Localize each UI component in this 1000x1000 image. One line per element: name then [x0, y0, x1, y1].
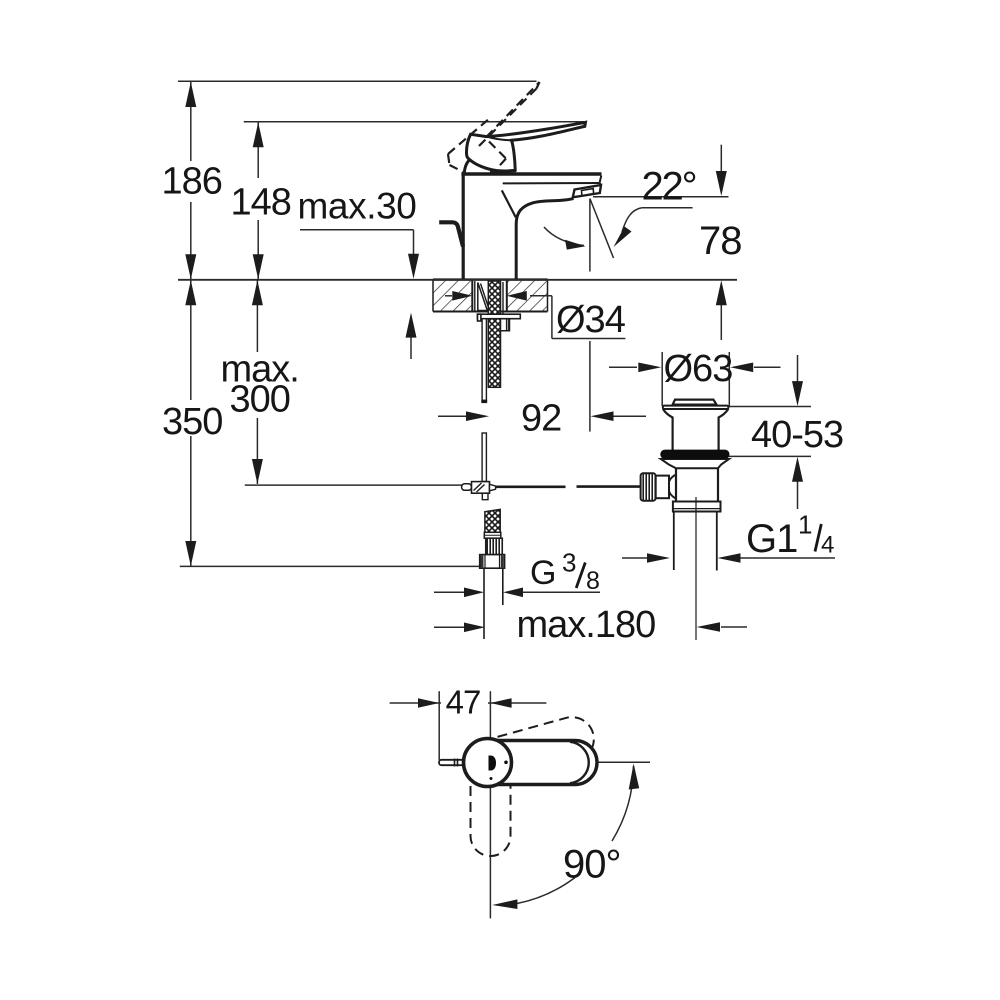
svg-text:92: 92: [521, 398, 561, 440]
svg-text:Ø63: Ø63: [664, 348, 733, 390]
svg-text:186: 186: [162, 161, 222, 203]
svg-text:max.180: max.180: [517, 604, 656, 646]
svg-text:350: 350: [162, 401, 222, 443]
svg-text:G1: G1: [746, 517, 797, 561]
svg-text:4: 4: [821, 532, 834, 559]
svg-text:40-53: 40-53: [751, 414, 843, 456]
svg-text:8: 8: [586, 567, 599, 595]
svg-text:148: 148: [231, 182, 291, 224]
svg-text:22°: 22°: [642, 165, 696, 209]
svg-text:47: 47: [446, 684, 481, 721]
svg-text:Ø34: Ø34: [556, 299, 626, 341]
svg-text:90°: 90°: [563, 843, 621, 887]
svg-text:78: 78: [699, 219, 742, 263]
svg-text:max.30: max.30: [298, 186, 417, 227]
svg-text:3: 3: [562, 547, 576, 577]
svg-text:1: 1: [798, 510, 812, 540]
svg-text:G: G: [530, 554, 555, 592]
svg-text:300: 300: [230, 379, 290, 421]
